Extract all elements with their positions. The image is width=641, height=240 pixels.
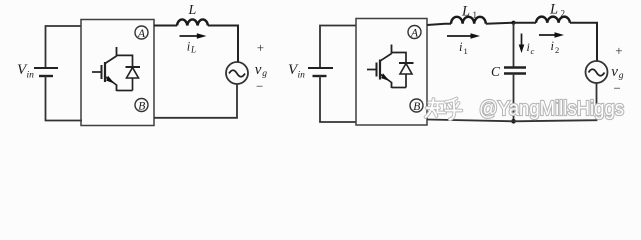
wire: top-left from battery to switch box	[46, 26, 82, 68]
node junction dot (top of capacitor)	[511, 21, 515, 25]
label Vin (right circuit)	[288, 62, 305, 81]
svg-text:i: i	[459, 40, 463, 54]
diode D2 triangle	[400, 64, 412, 75]
label L	[188, 3, 197, 18]
svg-text:g: g	[262, 69, 267, 79]
battery Vin (right circuit) long plate	[308, 67, 333, 69]
svg-text:in: in	[298, 71, 306, 81]
wire: top-left from battery to switch box (right circuit)	[320, 26, 356, 69]
ac source vg (right circuit)	[586, 61, 608, 83]
label C	[491, 64, 501, 79]
svg-text:A: A	[410, 28, 419, 40]
diode D1 cathode bar	[126, 66, 141, 68]
battery Vin (left circuit) long plate	[34, 67, 58, 69]
wire: inductor L2 to top-right corner and down to source	[570, 23, 597, 61]
transistor Q1 emitter diagonal with arrow	[105, 76, 117, 85]
label - polarity (left circuit)	[256, 78, 263, 93]
transistor Q2 body bar	[379, 60, 381, 80]
diode D2 anode lead	[405, 74, 407, 88]
svg-text:C: C	[491, 64, 501, 79]
inductor L coil	[177, 19, 208, 25]
junction dot (bottom of capacitor)	[511, 119, 516, 124]
watermark hanzi ZHI (knowledge)	[426, 99, 446, 117]
wire: bottom rail from Q1 emitter to diode D1	[117, 90, 133, 92]
svg-text:1: 1	[464, 46, 468, 56]
transistor Q1 gate lead	[92, 71, 102, 73]
wire: bottom-left from battery to switch box (right circuit)	[320, 76, 356, 122]
current arrow ic	[519, 34, 525, 54]
transistor Q2 emitter stub	[391, 82, 393, 88]
wire: inductor L to top-right corner and down to source	[208, 26, 238, 63]
transistor Q1 emitter stub	[116, 85, 118, 92]
capacitor C top plate	[504, 66, 526, 68]
wire: source bottom to box (right circuit)	[427, 83, 597, 121]
wire: node to inductor L2	[514, 22, 537, 24]
transistor Q2 gate lead	[367, 69, 377, 71]
label iL	[187, 40, 196, 55]
svg-text:+: +	[257, 40, 264, 55]
svg-text:i: i	[551, 39, 555, 53]
transistor Q1 collector diagonal	[105, 56, 117, 64]
transistor Q1 gate bar	[101, 65, 103, 79]
svg-text:c: c	[531, 46, 535, 56]
transistor Q1 body bar	[104, 62, 106, 82]
transistor Q2 collector diagonal	[380, 54, 392, 62]
svg-text:B: B	[413, 101, 420, 113]
diode D2 cathode bar	[399, 62, 414, 64]
svg-text:−: −	[614, 81, 621, 96]
current arrow i1	[447, 33, 480, 39]
svg-text:2: 2	[561, 9, 566, 19]
wire: source bottom to box (left circuit)	[154, 84, 237, 118]
wire: top rail from Q1 collector to diode D1	[117, 55, 133, 67]
switch network box (left circuit)	[81, 20, 154, 126]
battery Vin (left circuit) short plate	[39, 75, 53, 77]
svg-text:L: L	[461, 4, 470, 20]
svg-text:+: +	[615, 43, 622, 58]
current arrow i2	[539, 32, 564, 38]
label + polarity (right circuit)	[615, 43, 622, 58]
svg-text:L: L	[190, 45, 196, 55]
capacitor C bottom plate	[504, 72, 526, 74]
wire: inductor L1 to node	[486, 23, 514, 24]
watermark text @YangMillsHiggs	[479, 97, 624, 120]
wire: top rail from Q2 collector to diode D2	[392, 53, 407, 64]
label L1	[461, 4, 477, 21]
transistor Q1 collector stub	[116, 47, 118, 56]
svg-text:L: L	[188, 3, 197, 18]
label Vin (left circuit)	[17, 62, 34, 81]
svg-text:L: L	[549, 2, 558, 18]
wire: bottom-left from battery to switch box	[46, 76, 83, 121]
transistor Q2 gate bar	[376, 63, 378, 77]
svg-text:v: v	[255, 62, 262, 78]
svg-text:−: −	[256, 78, 263, 93]
svg-text:v: v	[611, 64, 618, 80]
node A terminal circle (left circuit)	[135, 26, 148, 40]
node B terminal circle (left circuit)	[135, 99, 148, 113]
label ic	[527, 40, 535, 56]
transistor Q2 emitter diagonal with arrow	[380, 73, 392, 82]
diode D1 triangle	[127, 68, 139, 79]
svg-text:i: i	[527, 40, 530, 54]
node B terminal circle (right circuit)	[410, 99, 423, 113]
battery Vin (right circuit) short plate	[313, 75, 327, 77]
svg-text:2: 2	[555, 45, 559, 55]
inductor L2 coil	[536, 17, 570, 23]
label i1	[459, 40, 468, 56]
svg-text:g: g	[619, 71, 624, 81]
watermark hanzi HU (particle)	[446, 99, 462, 120]
label vg (right circuit)	[611, 64, 624, 81]
inductor L1 coil	[451, 17, 486, 24]
label i2	[551, 39, 560, 55]
capacitor C bottom lead	[513, 74, 515, 122]
svg-text:A: A	[137, 28, 146, 40]
label - polarity (right circuit)	[614, 81, 621, 96]
label vg (left circuit)	[255, 62, 267, 79]
wire: box to inductor L	[154, 25, 177, 27]
svg-text:1: 1	[473, 10, 478, 20]
transistor Q2 collector stub	[391, 45, 393, 54]
svg-text:@YangMillsHiggs: @YangMillsHiggs	[479, 97, 624, 120]
label + polarity (left circuit)	[257, 40, 264, 55]
svg-text:B: B	[138, 101, 145, 113]
wire: box to inductor L1	[427, 24, 451, 25]
wire: bottom rail from Q2 emitter to diode D2	[392, 87, 407, 89]
svg-text:in: in	[27, 71, 35, 81]
current arrow iL	[180, 33, 207, 39]
diode D1 anode lead	[132, 78, 134, 91]
switch network box (right circuit)	[356, 19, 427, 126]
capacitor C top lead	[513, 23, 515, 68]
node A terminal circle (right circuit)	[408, 26, 421, 40]
label L2	[549, 2, 565, 19]
ac source vg (left circuit)	[226, 62, 248, 84]
